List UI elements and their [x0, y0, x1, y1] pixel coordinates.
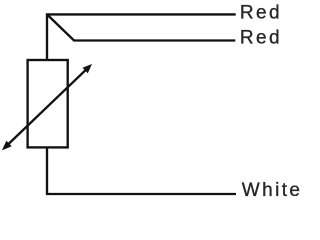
svg-text:Red: Red [240, 27, 282, 48]
svg-text:White: White [242, 180, 300, 199]
svg-text:Red: Red [240, 2, 282, 23]
